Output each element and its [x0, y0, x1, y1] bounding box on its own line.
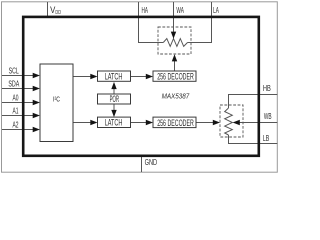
svg-text:A0: A0: [13, 92, 19, 102]
svg-text:LATCH: LATCH: [105, 118, 123, 128]
svg-text:256 DECODER: 256 DECODER: [157, 71, 194, 81]
svg-text:HA: HA: [142, 5, 149, 15]
svg-text:LATCH: LATCH: [105, 71, 123, 81]
svg-text:I²C: I²C: [53, 96, 60, 103]
svg-text:LB: LB: [263, 133, 270, 143]
svg-text:SDA: SDA: [8, 78, 19, 88]
svg-text:GND: GND: [145, 157, 158, 167]
svg-text:HB: HB: [263, 83, 271, 93]
svg-text:WB: WB: [264, 111, 272, 121]
svg-text:MAX5387: MAX5387: [162, 92, 190, 101]
svg-text:LA: LA: [213, 5, 219, 15]
svg-text:WA: WA: [176, 5, 184, 15]
svg-text:A2: A2: [13, 119, 19, 129]
svg-text:DD: DD: [55, 10, 61, 16]
svg-text:POR: POR: [110, 94, 120, 104]
svg-text:256 DECODER: 256 DECODER: [157, 118, 194, 128]
svg-text:SCL: SCL: [9, 65, 19, 75]
svg-text:A1: A1: [13, 105, 19, 115]
